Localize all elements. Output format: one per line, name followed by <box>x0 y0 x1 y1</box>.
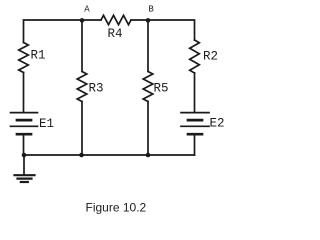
wire node A down <box>81 20 83 72</box>
resistor R4 <box>101 15 131 24</box>
wire E2 to bottom rail <box>194 135 196 155</box>
wire R3 to bottom rail <box>81 102 83 156</box>
svg-text:R4: R4 <box>108 27 123 41</box>
wire R2 to E2 <box>194 73 196 112</box>
battery E2 <box>181 113 209 135</box>
svg-text:R1: R1 <box>31 49 46 63</box>
wire top rail left (corner to node A) <box>24 20 102 43</box>
svg-text:R5: R5 <box>154 81 169 95</box>
wire R5 to bottom rail <box>147 102 149 156</box>
svg-text:Figure 10.2: Figure 10.2 <box>86 200 147 214</box>
ground <box>15 155 35 182</box>
node A junction dot <box>80 18 85 23</box>
node B junction dot <box>146 18 151 23</box>
battery E1 <box>11 113 38 135</box>
svg-text:R2: R2 <box>203 50 218 64</box>
svg-text:E2: E2 <box>210 116 225 130</box>
resistor R3 <box>77 72 87 102</box>
wire R1 to E1 <box>23 73 25 112</box>
junction dot R5/bottom <box>146 153 151 158</box>
wire node B down <box>147 20 149 72</box>
svg-text:R3: R3 <box>89 81 104 95</box>
resistor R1 <box>19 43 29 73</box>
resistor R2 <box>190 40 200 73</box>
resistor R5 <box>143 72 153 102</box>
wire bottom rail <box>24 154 195 156</box>
ground junction dot <box>22 153 27 158</box>
junction dot R3/bottom <box>79 153 84 158</box>
svg-text:E1: E1 <box>39 117 54 131</box>
wire top rail right (zigzag end to right corner) <box>131 20 195 40</box>
svg-text:A: A <box>84 4 90 14</box>
svg-text:B: B <box>148 4 154 14</box>
wire E1 to bottom rail <box>23 135 25 155</box>
